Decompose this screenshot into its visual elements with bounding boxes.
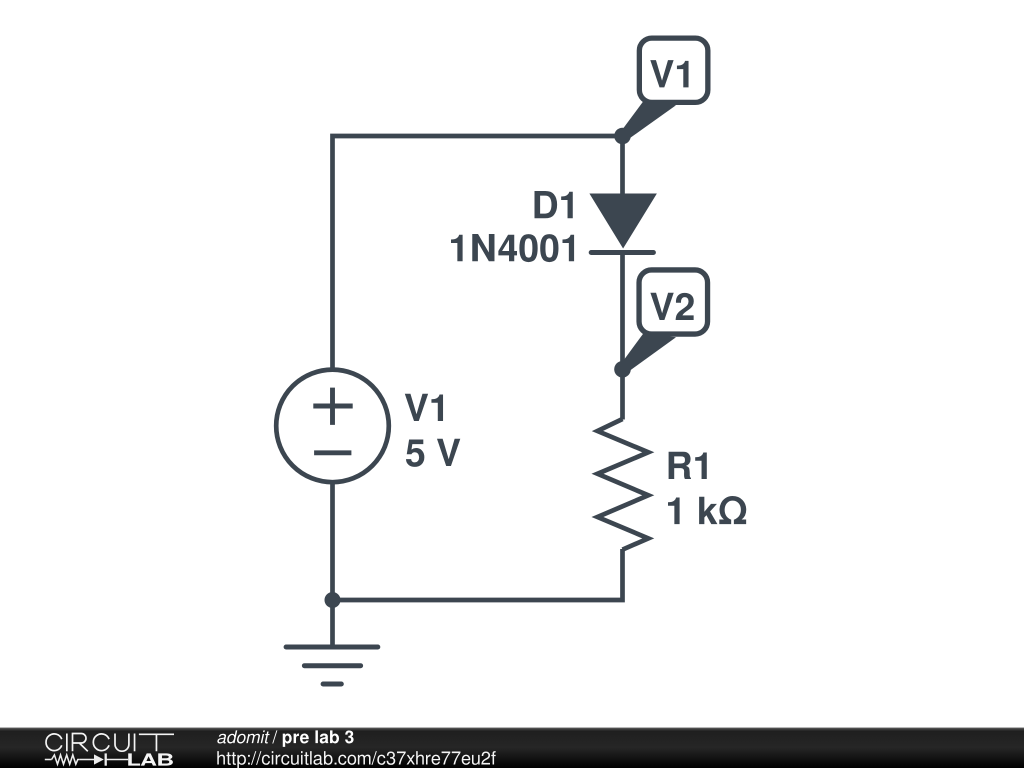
flag V2 text bbox=[650, 293, 693, 320]
CircuitLab logo resistor lead left bbox=[45, 755, 128, 764]
wire bottom horizontal + right riser bbox=[333, 549, 623, 600]
voltage source V1 circle bbox=[276, 370, 389, 483]
wire node V2 to resistor bbox=[620, 369, 625, 420]
CircuitLab logo LAB bbox=[128, 753, 173, 765]
label V1 source value 5 V bbox=[406, 439, 460, 467]
node dot ground junction bbox=[325, 592, 341, 608]
voltage source plus sign bbox=[313, 388, 352, 425]
wire top horizontal + left vertical upper bbox=[333, 136, 623, 370]
CircuitLab logo wire middle bbox=[80, 759, 95, 761]
flag V1 tail bbox=[622, 101, 676, 138]
CircuitLab logo wire right bbox=[107, 759, 129, 761]
CircuitLab logo letter U bbox=[115, 734, 129, 752]
flag V1 box bbox=[639, 38, 708, 102]
CircuitLab logo letter C1 bbox=[46, 734, 174, 752]
resistor R1 zigzag bbox=[598, 419, 649, 550]
diode D1 triangle bbox=[590, 194, 656, 248]
wire left vertical lower bbox=[330, 482, 335, 600]
label 1N4001 bbox=[451, 234, 574, 262]
label V1 source name bbox=[405, 394, 443, 421]
CircuitLab logo letter I1 bbox=[66, 734, 68, 752]
footer author line bbox=[217, 730, 353, 747]
footer url line bbox=[217, 751, 495, 768]
CircuitLab logo resistor zigzag bbox=[52, 755, 80, 764]
label R1 bbox=[669, 452, 707, 479]
flag V2 tail bbox=[622, 333, 676, 370]
CircuitLab logo letter T bbox=[139, 734, 174, 751]
label D1 bbox=[535, 191, 573, 218]
label R1 value 1 kOhm bbox=[668, 496, 746, 524]
diode D1 cathode bar bbox=[591, 250, 653, 255]
flag V2 box bbox=[639, 270, 708, 334]
voltage source minus sign bbox=[314, 450, 351, 455]
flag V1 text bbox=[650, 60, 688, 87]
wire diode to node V2 bbox=[620, 253, 625, 370]
ground bbox=[286, 600, 378, 684]
node dot V2 bbox=[614, 361, 631, 378]
CircuitLab logo letter R bbox=[73, 734, 88, 752]
CircuitLab logo letter I2 bbox=[134, 734, 136, 752]
node dot V1 bbox=[614, 128, 631, 145]
CircuitLab logo diode triangle bbox=[94, 754, 104, 764]
wire right vertical upper (node V1 to diode) bbox=[620, 136, 625, 200]
CircuitLab logo diode bar bbox=[105, 753, 107, 765]
CircuitLab logo letter C2 bbox=[93, 734, 109, 751]
